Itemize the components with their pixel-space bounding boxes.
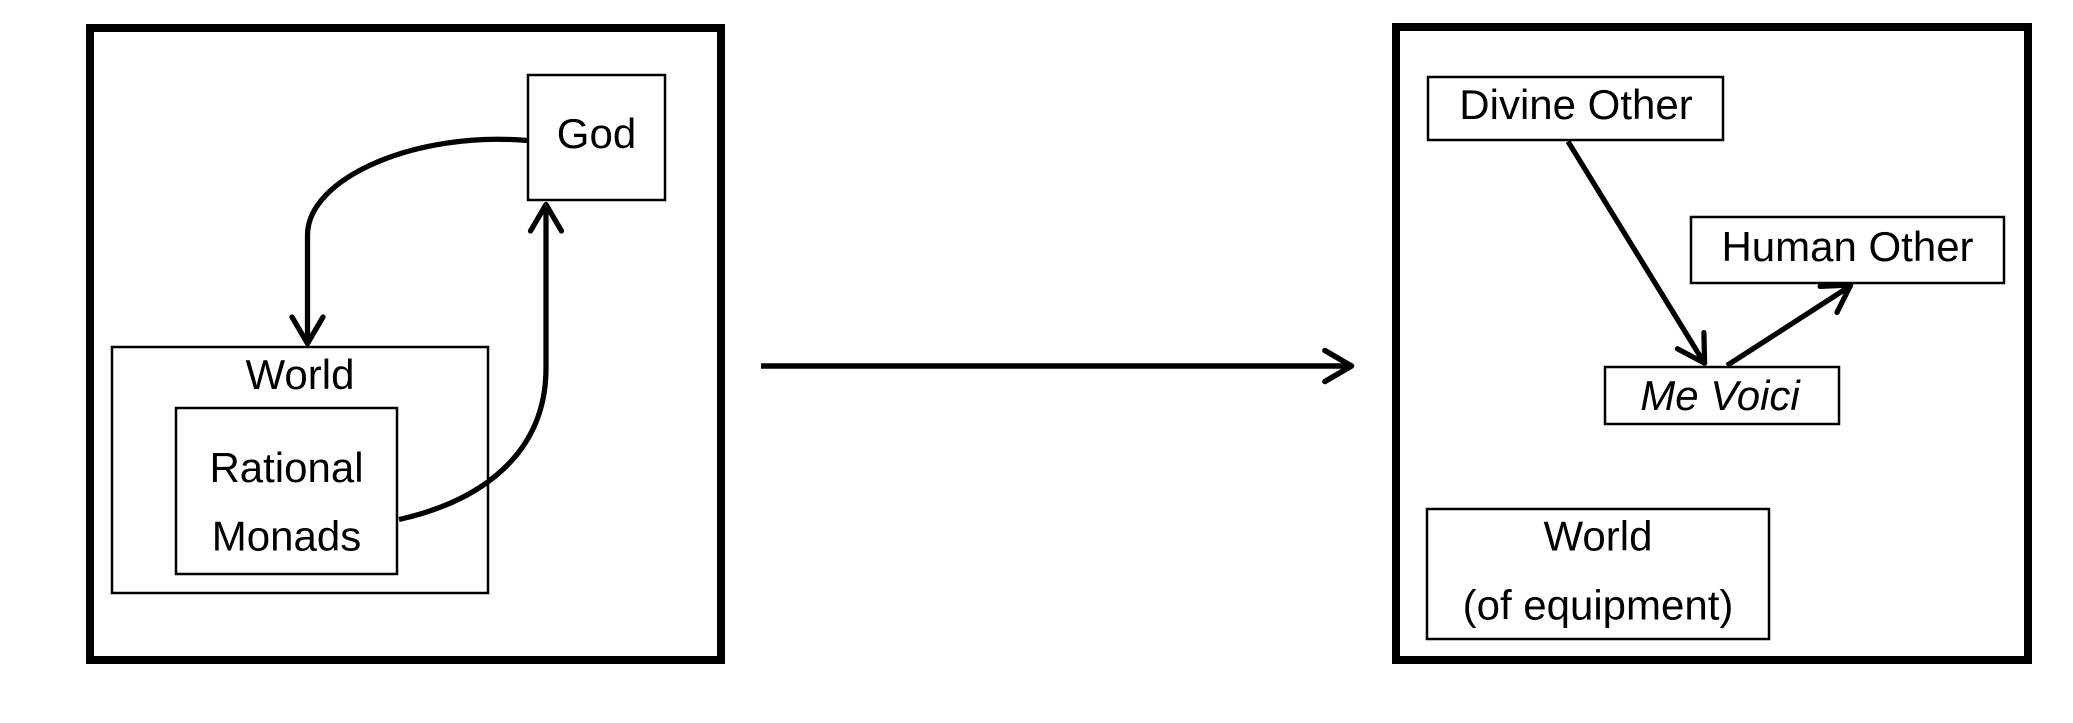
arrowhead middle arrow xyxy=(1325,351,1352,382)
left panel outer box xyxy=(90,28,721,660)
curved arrow Rational Monads to God xyxy=(399,207,546,520)
svg-text:(of equipment): (of equipment) xyxy=(1463,582,1734,629)
arrow Divine Other to Me Voici xyxy=(1568,142,1704,363)
Divine Other box xyxy=(1428,77,1723,140)
World box (left panel) xyxy=(112,347,488,593)
God box xyxy=(528,75,665,200)
svg-text:Me Voici: Me Voici xyxy=(1640,372,1801,419)
Rational Monads box xyxy=(176,408,397,574)
middle arrow left panel to right panel xyxy=(761,363,1349,369)
World of equipment box xyxy=(1427,509,1769,639)
svg-text:World: World xyxy=(1544,513,1653,560)
curved arrow God to World xyxy=(308,139,528,341)
arrowhead Divine Other to Me Voici xyxy=(1678,333,1705,364)
svg-text:God: God xyxy=(557,110,636,157)
arrowhead Me Voici to Human Other xyxy=(1820,285,1851,312)
arrowhead Rational Monads to God xyxy=(531,205,562,232)
Human Other box xyxy=(1691,217,2004,283)
right panel outer box xyxy=(1396,27,2028,660)
arrowhead God to World xyxy=(292,317,323,344)
svg-text:Monads: Monads xyxy=(212,513,361,560)
svg-text:Human Other: Human Other xyxy=(1721,223,1973,270)
arrow Me Voici to Human Other xyxy=(1727,286,1851,366)
Me Voici box xyxy=(1605,367,1839,424)
svg-text:World: World xyxy=(246,351,355,398)
svg-text:Divine Other: Divine Other xyxy=(1459,81,1692,128)
svg-text:Rational: Rational xyxy=(209,444,363,491)
